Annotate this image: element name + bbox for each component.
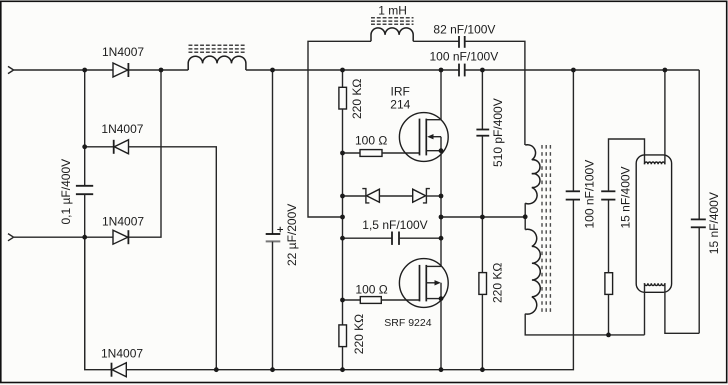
svg-text:220 KΩ: 220 KΩ <box>491 263 505 303</box>
svg-text:100 nF/100V: 100 nF/100V <box>583 160 597 229</box>
wire <box>342 347 344 370</box>
choke L1 winding <box>188 56 246 70</box>
wire lamp left heater feed <box>608 294 610 335</box>
zener Z2 <box>413 189 430 203</box>
wire <box>84 195 86 370</box>
wire <box>129 147 217 370</box>
svg-text:100 Ω: 100 Ω <box>355 133 387 147</box>
input terminal N <box>8 234 14 241</box>
svg-text:100 Ω: 100 Ω <box>355 283 387 297</box>
svg-text:220 KΩ: 220 KΩ <box>350 79 364 119</box>
1.5nF row: wire <box>343 237 393 239</box>
transformer TR1 upper winding <box>525 145 540 204</box>
wire <box>129 70 161 237</box>
svg-text:0,1 µF/400V: 0,1 µF/400V <box>59 159 73 225</box>
wire <box>481 294 483 369</box>
510pF column: wire <box>481 70 483 129</box>
node midpoint rail dots <box>439 148 444 153</box>
plus sign C2 <box>277 227 283 233</box>
node bus dots <box>82 68 87 73</box>
wire <box>14 236 113 238</box>
MOSFET Q2 SRF9224 <box>399 259 448 308</box>
capacitor C5 510pF/400V plates <box>476 130 489 136</box>
wire <box>609 139 645 191</box>
node gate column dots <box>340 151 345 156</box>
svg-text:220 KΩ: 220 KΩ <box>352 314 366 354</box>
wire <box>129 69 188 71</box>
diode D1 1N4007 <box>113 63 128 77</box>
wire source Q2 to bus <box>440 299 442 370</box>
capacitor C8 15nF/400V plates <box>601 191 615 199</box>
svg-text:1N4007: 1N4007 <box>101 347 143 361</box>
capacitor C3 82nF/100V plates <box>459 36 465 48</box>
diode D4 row: bottom bus <box>85 237 112 370</box>
choke L1 core <box>189 45 247 52</box>
node bottom bus dots <box>214 367 219 372</box>
wire <box>413 40 459 42</box>
svg-text:SRF 9224: SRF 9224 <box>384 317 431 329</box>
zener row: wire <box>343 195 366 197</box>
svg-text:15 nF/400V: 15 nF/400V <box>619 166 633 228</box>
lamp tube <box>636 155 671 292</box>
wire transformer bottom lead <box>525 314 644 335</box>
wire <box>465 69 700 71</box>
svg-text:15 nF/400V: 15 nF/400V <box>707 192 721 254</box>
wire <box>381 299 419 301</box>
svg-text:100 nF/100V: 100 nF/100V <box>430 49 499 63</box>
capacitor C7 100nF/100V plates <box>566 191 580 199</box>
inductor L2 core <box>371 18 414 25</box>
wire <box>426 195 441 197</box>
resistor R4 100R <box>360 150 382 157</box>
input terminal L <box>8 66 14 73</box>
wire <box>608 200 610 273</box>
capacitor C6 1,5nF/100V plates <box>392 232 399 245</box>
svg-text:22 µF/200V: 22 µF/200V <box>285 204 299 266</box>
midpoint tap wire <box>441 216 525 218</box>
resistor R1 220K <box>339 87 347 109</box>
MOSFET Q1 IRF214 <box>399 113 448 162</box>
svg-text:1N4007: 1N4007 <box>101 122 143 136</box>
capacitor C9 15nF/400V plates <box>691 219 706 227</box>
wire tap joint <box>524 203 526 229</box>
wire <box>272 242 274 370</box>
capacitor C1 0,1uF/400V plates <box>76 186 93 194</box>
lamp top filament <box>645 162 665 164</box>
wire <box>572 70 574 191</box>
wire lamp bottom left pin <box>644 283 646 335</box>
wire midpoint rail <box>440 151 442 267</box>
wire <box>399 237 441 239</box>
wire <box>14 69 113 71</box>
wire drain Q1 <box>440 70 442 120</box>
diode D4 1N4007 <box>112 363 127 377</box>
capacitor C4 100nF/100V plates <box>459 64 465 77</box>
resistor R3 220K <box>479 273 487 295</box>
node AC line dots <box>82 144 87 149</box>
wire left AC column <box>84 70 86 185</box>
svg-text:IRF: IRF <box>391 85 410 99</box>
svg-text:1N4007: 1N4007 <box>102 45 144 59</box>
svg-text:214: 214 <box>390 98 410 112</box>
resistor R6 <box>605 273 613 295</box>
svg-text:82 nF/100V: 82 nF/100V <box>433 23 495 37</box>
wire <box>382 152 420 154</box>
wire <box>481 136 483 273</box>
gate row 1: wire <box>343 152 361 154</box>
wire <box>379 195 412 197</box>
electrolytic C2 22uF/200V column <box>272 70 274 234</box>
node misc dots <box>480 215 485 220</box>
gate bias column R1 220K <box>342 70 344 87</box>
wire <box>342 109 344 325</box>
resistor R2 220K <box>339 325 347 347</box>
inductor L2 1mH winding <box>371 28 413 41</box>
wire <box>698 228 700 334</box>
wire lamp top right pin to bus <box>664 70 666 164</box>
transformer TR1 lower winding <box>525 229 540 314</box>
diode D2 row wire <box>85 146 114 148</box>
bottom bus wire <box>126 200 573 370</box>
wire 1mH feedback top <box>308 41 371 217</box>
diode D2 1N4007 <box>114 140 129 154</box>
wire lamp bottom right pin <box>665 283 699 333</box>
right column C9: wire <box>698 70 700 219</box>
svg-text:1,5 nF/100V: 1,5 nF/100V <box>362 218 427 232</box>
lamp bottom filament <box>645 283 665 285</box>
diode D3 1N4007 <box>113 230 128 244</box>
svg-text:510 pF/400V: 510 pF/400V <box>491 98 505 167</box>
capacitor C2 22uF/200V plates <box>266 234 281 241</box>
gate row 2: wire <box>343 299 361 301</box>
zener Z1 <box>362 189 379 203</box>
svg-text:1 mH: 1 mH <box>378 3 407 17</box>
resistor R5 100R <box>360 297 381 304</box>
wire <box>465 41 525 145</box>
svg-text:1N4007: 1N4007 <box>102 215 144 229</box>
wire <box>246 69 459 71</box>
transformer TR1 core <box>542 145 550 314</box>
